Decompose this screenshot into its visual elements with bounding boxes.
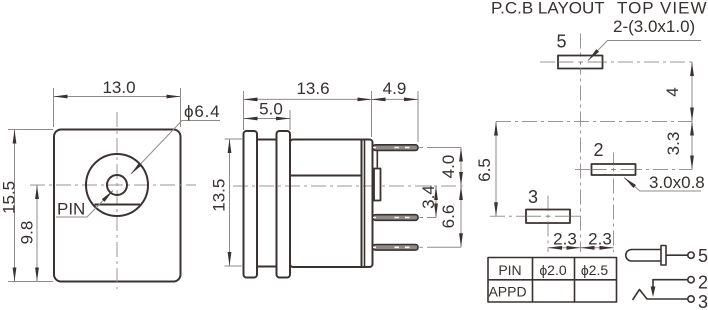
svg-text:2.3: 2.3 <box>588 230 612 249</box>
front view body outline <box>54 130 181 282</box>
svg-text:3: 3 <box>698 292 708 310</box>
svg-text:PIN: PIN <box>57 200 85 219</box>
dim 4 dimension line <box>691 62 693 122</box>
center contact tab <box>374 169 381 201</box>
dim 15.5 extension line top <box>8 129 53 131</box>
dim 13.5 extension line bottom <box>225 265 243 267</box>
svg-text:4.9: 4.9 <box>383 79 407 98</box>
svg-text:3.0x0.8: 3.0x0.8 <box>649 173 705 192</box>
dim 4.9 extension line right <box>417 91 419 142</box>
svg-text:4.0: 4.0 <box>439 155 458 179</box>
svg-text:13.5: 13.5 <box>210 179 229 212</box>
svg-text:ϕ2.0: ϕ2.0 <box>539 262 567 278</box>
dim 3.4 dimension line <box>435 186 437 218</box>
svg-text:13.6: 13.6 <box>296 79 329 98</box>
body parting line <box>290 175 362 177</box>
label phi6.4 leader <box>131 121 220 175</box>
label 3.0x0.8 leader <box>624 178 701 192</box>
dim 13.6 dimension line <box>244 98 372 100</box>
pad 2 <box>592 164 636 175</box>
svg-text:5: 5 <box>556 32 566 52</box>
pin 3 (bottom pin) <box>373 245 418 251</box>
label PIN leader <box>56 191 113 218</box>
svg-text:5: 5 <box>698 246 708 266</box>
terminal 2 circle <box>688 277 694 283</box>
chord line (key flat in bushing) <box>95 204 141 206</box>
barrel bottom edge between flanges <box>257 266 277 268</box>
table frame <box>488 258 617 303</box>
table column line 2 <box>574 258 576 303</box>
dim 13.5 extension line top <box>225 138 243 140</box>
dim 5.0 dimension line <box>244 118 291 120</box>
table column line 1 <box>532 258 534 303</box>
svg-text:15.5: 15.5 <box>0 181 19 214</box>
svg-text:3: 3 <box>528 187 538 207</box>
dim 3.3 dimension line <box>691 122 693 170</box>
label 2-(3.0x1.0) leader <box>588 41 701 61</box>
plug barrel symbol <box>626 250 661 262</box>
dim 9.8 dimension line <box>36 185 38 282</box>
svg-text:4: 4 <box>663 87 682 96</box>
side view body outline <box>290 140 373 268</box>
dim 13.0 extension line right <box>180 88 182 127</box>
svg-text:ϕ6.4: ϕ6.4 <box>184 102 220 121</box>
wire from plug to terminal 5 <box>666 254 688 256</box>
pad 5 horizontal centerline <box>540 61 692 63</box>
body internal vertical line a <box>361 140 363 268</box>
dim 15.5 extension line bottom <box>8 281 53 283</box>
reference horizontal centerline <box>496 121 692 123</box>
dim 6.5 dimension line <box>495 122 497 217</box>
svg-text:6.5: 6.5 <box>475 158 494 182</box>
wire terminal 3 with spring contact <box>633 290 688 301</box>
outer circle (bushing ring) <box>86 154 148 216</box>
pin 1 centerline <box>420 147 462 149</box>
dim 6.6 dimension line <box>460 186 462 247</box>
svg-text:APPD: APPD <box>488 284 526 300</box>
svg-text:2-(3.0x1.0): 2-(3.0x1.0) <box>613 17 695 36</box>
main vertical centerline <box>580 34 582 253</box>
svg-text:5.0: 5.0 <box>259 100 283 119</box>
dim 5.0 extension line right <box>289 110 291 130</box>
table row line <box>488 279 617 281</box>
horizontal centerline of front view <box>30 184 196 186</box>
svg-text:3.3: 3.3 <box>664 132 683 156</box>
flange 1 <box>244 131 258 278</box>
svg-text:PIN: PIN <box>498 262 521 278</box>
dim 15.5 dimension line <box>14 130 16 282</box>
pad 3 horizontal centerline <box>490 215 581 217</box>
dim 13.6 extension line left <box>243 91 245 130</box>
vertical centerline of front view <box>116 112 118 289</box>
svg-text:13.0: 13.0 <box>102 78 135 97</box>
terminal 5 circle <box>688 252 694 258</box>
dim 13.5 dimension line <box>229 139 231 266</box>
dim 13.6 extension line right <box>371 91 373 137</box>
pin 1 bracket <box>376 150 378 168</box>
dim 13.0 dimension line <box>54 96 181 98</box>
svg-text:6.6: 6.6 <box>439 205 458 229</box>
dim 13.0 extension line left <box>53 88 55 127</box>
terminal 3 circle <box>688 296 694 302</box>
dim 2.3 right dimension line <box>581 247 614 249</box>
flange 2 <box>277 131 291 278</box>
pin 2 (middle pin) <box>373 215 418 221</box>
svg-text:2: 2 <box>593 140 603 160</box>
pad 2 vertical centerline <box>613 153 615 253</box>
svg-text:P.C.B LAYOUT: P.C.B LAYOUT <box>491 0 605 18</box>
dim 4.9 dimension line <box>372 98 419 100</box>
pad 3 vertical centerline <box>547 196 549 253</box>
svg-text:2.3: 2.3 <box>553 230 577 249</box>
inner circle (center pin hole) <box>107 175 127 195</box>
dim 2.3 left dimension line <box>548 247 581 249</box>
pin 1 (top pin) <box>373 145 418 151</box>
svg-text:9.8: 9.8 <box>18 221 37 245</box>
plug flange bar <box>661 246 666 266</box>
body internal vertical line b <box>364 140 366 268</box>
dim 4.0 dimension line <box>460 148 462 187</box>
wire terminal 2 with contact arrow <box>653 280 688 288</box>
side view main centerline <box>233 185 466 187</box>
pad 5 <box>558 56 603 69</box>
barrel top edge between flanges <box>257 139 277 141</box>
svg-text:ϕ2.5: ϕ2.5 <box>581 262 609 278</box>
svg-text:2: 2 <box>698 273 708 293</box>
svg-text:TOP VIEW: TOP VIEW <box>617 0 708 18</box>
svg-text:3.4: 3.4 <box>419 185 438 209</box>
pad 3 <box>526 210 570 224</box>
pin 2 centerline <box>420 217 437 219</box>
pin 3 centerline <box>420 246 462 248</box>
pad 2 horizontal centerline <box>575 169 692 171</box>
